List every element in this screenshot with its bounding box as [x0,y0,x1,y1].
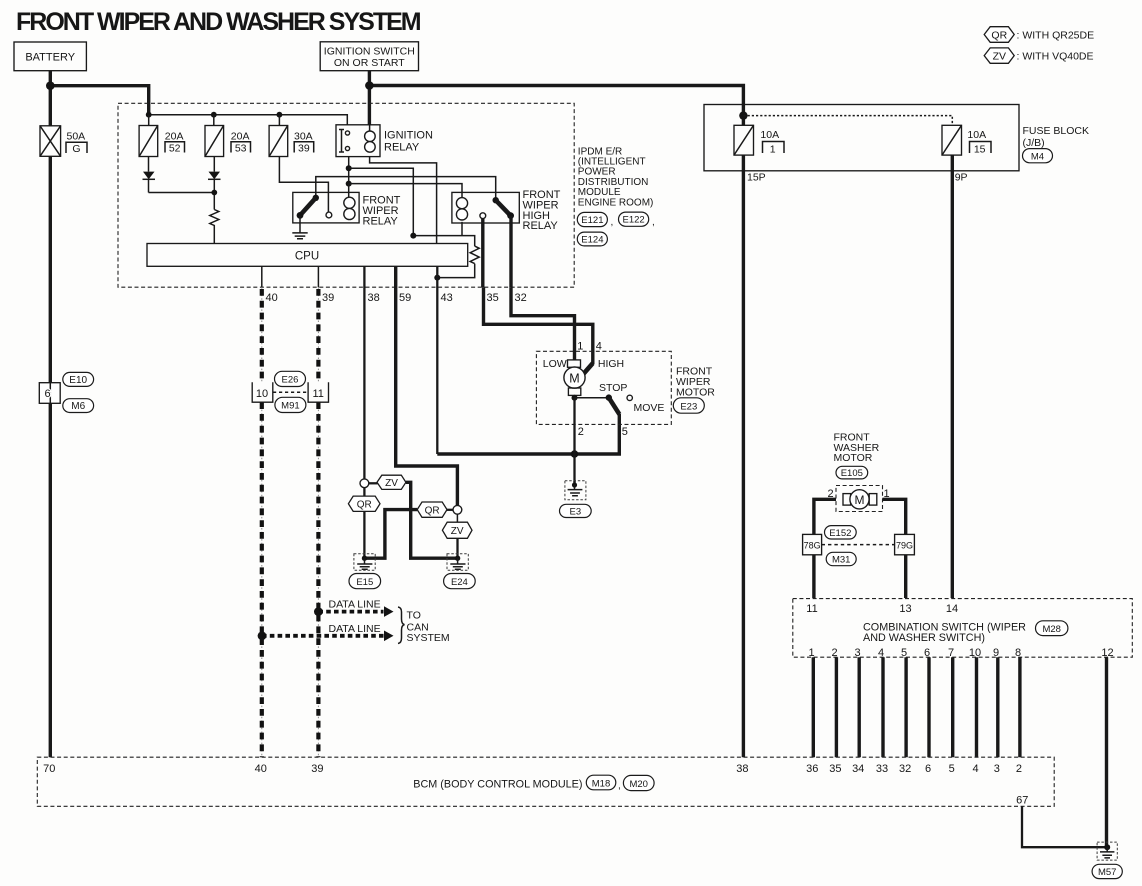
connector bracket 10 [252,382,273,402]
svg-text:E124: E124 [581,235,603,246]
svg-text:AND WASHER SWITCH): AND WASHER SWITCH) [863,632,985,644]
svg-text:,: , [618,781,621,792]
svg-text:39: 39 [311,763,323,775]
svg-text:E15: E15 [356,577,373,588]
svg-text:BCM (BODY CONTROL MODULE): BCM (BODY CONTROL MODULE) [413,778,582,790]
svg-text:10A: 10A [760,129,779,141]
svg-text:36: 36 [806,763,818,775]
wire ignition relay output to CPU [370,157,437,244]
svg-text:M31: M31 [832,555,850,566]
wire pin 35 from high relay contact [481,219,484,288]
svg-text:ZV: ZV [993,50,1006,62]
svg-text:33: 33 [876,763,888,775]
fuse block J/B box [704,105,1019,171]
node bus fuse52 tap [146,112,152,118]
node D [434,275,440,281]
wire data line arrow 2 [262,634,384,638]
legend ZV tag [984,48,1093,63]
svg-text:78G: 78G [804,540,821,550]
resistor R2 [470,246,479,264]
svg-text:E10: E10 [69,375,87,386]
svg-text:E3: E3 [569,506,581,517]
to CAN system label [398,607,450,644]
front washer motor M2 [836,486,883,512]
svg-text:1: 1 [770,143,776,155]
svg-text:2: 2 [1016,763,1022,775]
node diode join [211,190,217,196]
wire 70 battery to BCM [49,156,52,757]
svg-text:38: 38 [368,292,380,304]
wire IPDM pin 35 to motor high [484,287,593,364]
svg-text:MOTOR: MOTOR [834,452,873,464]
svg-text:1: 1 [577,341,583,353]
node B [346,181,352,187]
svg-text:10A: 10A [967,129,986,141]
front wiper motor box [536,351,671,424]
node bus fuse53 tap [211,112,217,118]
svg-text:E23: E23 [680,401,697,412]
svg-text:11: 11 [806,603,817,615]
ground E24 [447,554,468,571]
wire node A to high relay coil bottom and resistor [349,168,475,277]
svg-text:RELAY: RELAY [363,215,399,227]
node fuse block junction [739,111,747,119]
front wiper motor label [676,366,715,399]
node wire2 crossing [571,450,579,458]
fuse 10A 1 [734,125,784,155]
svg-text:RELAY: RELAY [523,220,559,232]
connector oval M57 [1092,864,1122,878]
connector 6 E10/M6 [39,383,60,404]
node data line junction 2 [258,631,267,640]
svg-text:M91: M91 [281,401,299,412]
svg-text:9P: 9P [955,172,968,184]
svg-text:E121: E121 [581,215,603,226]
svg-text:ZV: ZV [451,526,464,537]
connector oval E10 [63,372,94,386]
battery [14,42,86,71]
svg-text:BATTERY: BATTERY [25,52,75,64]
svg-text:52: 52 [169,143,181,155]
ignition relay U1 [336,125,433,157]
BCM box [37,757,1054,806]
CPU box [147,244,468,267]
svg-text:E122: E122 [623,215,645,226]
svg-text:2: 2 [578,426,584,438]
svg-text:M4: M4 [1031,151,1044,162]
connector oval M6 [63,399,94,413]
wire motor pin 2 to ground [573,398,575,485]
ground FW relay [292,215,307,238]
node ignition feed junction [365,81,374,90]
connector oval E121 [577,212,613,228]
svg-text:53: 53 [235,143,247,155]
node connector circle chain A [360,479,369,488]
svg-text:70: 70 [43,763,55,775]
connector oval E105 [836,466,868,479]
svg-text:(J/B): (J/B) [1023,137,1045,149]
svg-text:67: 67 [1016,795,1028,807]
svg-text:MOTOR: MOTOR [676,386,715,398]
svg-text:ON OR START: ON OR START [334,57,405,69]
fuse 10A 15 [942,125,991,155]
node bus fuse30A tap [277,112,283,118]
connector oval E3 [560,504,592,517]
node battery junction [46,81,55,90]
svg-text:40: 40 [266,292,278,304]
front wiper motor M1 [543,358,624,396]
wire CPU pin 38 [363,266,365,479]
wire washer motor pin 2 [814,499,836,598]
wire CAN data line 2 (pin 39) [317,266,319,287]
svg-text:G: G [72,143,80,155]
connector oval M20 [623,775,654,790]
wire combination switch pin 12 to ground [1105,657,1108,847]
svg-text:ENGINE ROOM): ENGINE ROOM) [578,197,654,208]
wire relay pivots rail [316,177,496,201]
svg-text:40: 40 [255,763,267,775]
diode D1 under fuse 52 [143,157,215,193]
svg-text:38: 38 [736,763,748,775]
wire fuse 15 to combination switch pin 14 [951,155,954,598]
wires combination switch to BCM [813,657,1020,757]
front wiper relay U2 [293,192,401,227]
svg-text:59: 59 [399,292,411,304]
wire 30A fuse to FW relay contact [279,157,328,213]
svg-text:15P: 15P [747,172,766,184]
fuse 20A 53 [205,126,251,157]
svg-text:32: 32 [899,763,911,775]
wire CPU pin 59 [396,266,458,505]
connector oval E15 [349,574,381,589]
svg-text:E24: E24 [451,577,468,588]
svg-text:IGNITION SWITCH: IGNITION SWITCH [324,45,415,57]
svg-text:HIGH: HIGH [598,358,624,370]
svg-text:1: 1 [883,488,889,500]
svg-text:LOW: LOW [543,358,567,370]
connector oval M4 [1023,149,1053,163]
diode D2 under fuse 53 [208,157,221,210]
svg-text:FUSE BLOCK: FUSE BLOCK [1023,125,1090,137]
svg-text:13: 13 [899,603,911,615]
svg-text:34: 34 [852,763,864,775]
svg-text:15: 15 [974,143,986,155]
svg-text:SYSTEM: SYSTEM [407,632,450,644]
svg-text:,: , [652,217,655,228]
front wiper high relay U3 [452,189,561,232]
connector oval E26 [275,371,306,386]
ground E15 [354,554,375,571]
svg-text:6: 6 [44,388,50,400]
svg-text:30A: 30A [294,130,313,142]
combination switch box [793,599,1133,658]
node A [346,165,352,171]
connector 78G [803,534,822,554]
wire CAN data line 1 (pin 40) [261,266,263,287]
svg-text:43: 43 [441,292,453,304]
svg-text:5: 5 [949,763,955,775]
svg-text:11: 11 [312,388,323,400]
svg-text:4: 4 [972,763,978,775]
legend QR tag [984,27,1094,43]
connector oval M18 [586,775,620,791]
wire IPDM pin 32 to motor low [511,287,575,360]
svg-text:FRONT WIPER AND WASHER SYSTEM: FRONT WIPER AND WASHER SYSTEM [16,8,421,36]
svg-text:QR: QR [425,505,440,516]
wire ZV chain A to ground E24 [406,482,458,558]
connector oval M91 [275,397,306,412]
svg-text:20A: 20A [165,130,184,142]
fuse 30A 39 [269,126,314,157]
wire CPU pin 43 [436,266,438,454]
wire ignition relay contact drop [348,157,350,184]
wire pin 32 from high relay arm [509,216,512,288]
svg-text:M6: M6 [71,401,85,412]
svg-text:MOVE: MOVE [634,402,665,414]
ignition switch box [320,42,418,71]
hexagon tag ZV chain B [442,514,472,558]
wire IPDM internal bus [149,115,348,125]
combination switch bottom pin labels [808,647,1113,659]
svg-text:M: M [569,371,579,385]
wire BCM 67 to ground M57 [1022,806,1107,847]
wire data line arrow 1 [318,610,383,614]
IPDM name text [578,146,654,208]
hexagon tag ZV chain A [369,475,406,489]
wire fuse 1 to BCM pin 38 [742,155,745,757]
connector oval E122 [619,212,655,228]
svg-text:M28: M28 [1042,624,1060,635]
connector oval E24 [444,574,476,589]
wire QR chain B to ground E15 [366,510,417,559]
connector bracket 11 [308,382,328,402]
connector oval E124 [577,232,607,246]
svg-text:TO: TO [407,610,421,622]
svg-text:35: 35 [487,292,499,304]
hexagon tag QR chain B [417,502,453,517]
hexagon tag QR chain A [348,488,380,559]
svg-text:35: 35 [829,763,841,775]
combination switch top pin labels [806,603,958,615]
IPDM E/R box [118,103,574,287]
svg-text:: WITH VQ40DE: : WITH VQ40DE [1017,51,1094,63]
wire bracket dashed link [273,391,308,393]
svg-text:DATA LINE: DATA LINE [329,623,381,635]
node C [410,233,416,239]
resistor R1 to CPU [210,210,219,244]
svg-text:E152: E152 [829,528,851,539]
ground M57 [1097,842,1117,860]
connector 79G [895,534,915,554]
wire battery feed [50,71,148,127]
fusible link 50A G [40,126,87,157]
svg-text:6: 6 [925,763,931,775]
node connector circle chain B [453,505,462,514]
front washer motor label [834,432,880,464]
svg-text:M: M [855,493,865,507]
wire motor pin5 to IPDM pin 43 [437,414,619,454]
motor park switch [572,382,665,415]
svg-text:E105: E105 [841,468,863,479]
wire bus drops to fuses [149,115,280,126]
svg-text:: WITH QR25DE: : WITH QR25DE [1017,30,1095,42]
wire fuse block internal dotted link [743,116,952,126]
svg-text:IGNITION: IGNITION [384,129,433,141]
connector oval M31 [826,552,856,565]
svg-text:5: 5 [622,426,628,438]
wire ignition switch feed [369,71,743,126]
svg-text:M20: M20 [629,779,647,790]
svg-text:4: 4 [596,341,602,353]
svg-text:14: 14 [946,603,958,615]
svg-text:STOP: STOP [599,382,627,394]
svg-text:39: 39 [298,143,310,155]
svg-text:RELAY: RELAY [384,141,420,153]
svg-text:ZV: ZV [385,478,398,489]
svg-text:DATA LINE: DATA LINE [329,599,381,611]
svg-text:3: 3 [994,763,1000,775]
wire node B to relay coils [349,184,462,198]
svg-text:CPU: CPU [295,251,319,263]
svg-text:32: 32 [515,292,527,304]
wire 78G-79G dashed link [822,544,895,546]
BCM pin labels [43,763,1022,775]
connector oval E23 [673,398,704,413]
svg-text:QR: QR [991,29,1007,41]
svg-text:E26: E26 [282,375,299,386]
svg-text:M57: M57 [1098,867,1116,878]
svg-text:79G: 79G [896,540,913,550]
wire washer motor pin 1 [883,499,906,598]
svg-text:M18: M18 [592,778,610,789]
fuse 20A 52 [139,126,184,157]
svg-text:10: 10 [256,388,268,400]
svg-text:50A: 50A [67,131,86,143]
connector oval E152 [825,526,857,539]
node data line junction 1 [314,607,323,616]
svg-text:2: 2 [827,488,833,500]
svg-text:20A: 20A [231,130,250,142]
svg-text:QR: QR [357,500,372,511]
IPDM pin labels [266,292,527,304]
ground E3 [565,481,586,500]
svg-text:39: 39 [322,292,334,304]
connector oval M28 [1036,621,1068,636]
svg-text:,: , [611,217,614,228]
